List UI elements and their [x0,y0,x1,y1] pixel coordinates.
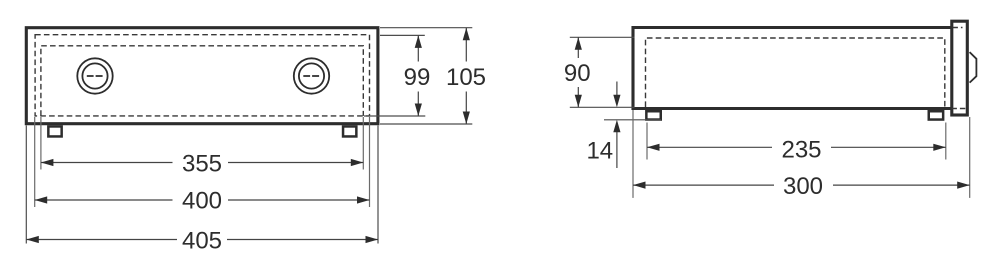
extension line: side left foot (235) [646,123,648,160]
svg-text:105: 105 [446,64,486,91]
svg-text:235: 235 [781,136,821,163]
extension line: front box right edge down (405) [377,126,379,244]
right knob slot [303,75,319,77]
hidden edge dash in panel bottom [952,108,967,110]
dimension 14 upper arrow [616,82,618,98]
dimension 300 [633,184,970,186]
extension line: dashed1 right down (400) [369,117,371,207]
side view dashed inner line [646,38,945,107]
right knob outer circle [294,58,329,93]
dimension 405 [26,239,378,241]
right knob inner circle [299,63,324,88]
extension line: front box bottom right (105) [380,123,472,125]
svg-text:14: 14 [586,137,613,164]
left knob inner circle [82,63,107,88]
front view outer box [26,28,378,124]
extension line: panel right edge down (300) [969,117,971,198]
front right foot [343,126,356,136]
extension line: dashed2 left down (355) [40,117,42,170]
extension line: front box top right (105) [380,27,472,29]
dimension 400 [35,199,370,201]
svg-text:400: 400 [182,188,222,215]
extension line: dashed2 right down (355) [362,117,364,170]
front left foot [48,126,61,136]
extension line: dashed1 left down (400) [34,117,36,207]
hidden edge dash in panel top [953,27,963,29]
front view dashed rect 2 (inner dashed) [41,46,363,116]
side right foot [929,111,943,119]
side view front panel [952,21,968,115]
extension line: side box bottom left (90 and 14) [570,106,635,108]
dimension 355 [41,162,363,164]
svg-text:99: 99 [404,64,431,91]
left knob outer circle [77,58,112,93]
svg-text:405: 405 [182,227,222,254]
left knob slot [87,75,103,77]
dimension 99 [417,35,419,116]
side left foot [646,111,660,119]
dimension 235 [647,146,946,148]
svg-text:355: 355 [182,150,222,177]
extension line: front box left edge down (405) [25,126,27,244]
extension line: dashed1 bottom right (99) [364,115,425,117]
svg-text:300: 300 [783,173,823,200]
front view dashed rect 1 (outer dashed) [35,35,369,116]
extension line: side right foot (235) [945,123,947,160]
side view main box [633,28,951,109]
extension line: feet bottom left (14) [604,119,661,121]
dimension 105 [465,28,467,124]
svg-text:90: 90 [564,60,591,87]
dimension 14 lower arrow [616,132,618,168]
extension line: side box left edge down (300) [632,110,634,198]
extension line: dashed top left (90) [570,36,635,38]
extension line: dashed1 top right (99) [380,34,425,36]
side knob bump [970,52,977,83]
dimension 90 [577,37,579,107]
